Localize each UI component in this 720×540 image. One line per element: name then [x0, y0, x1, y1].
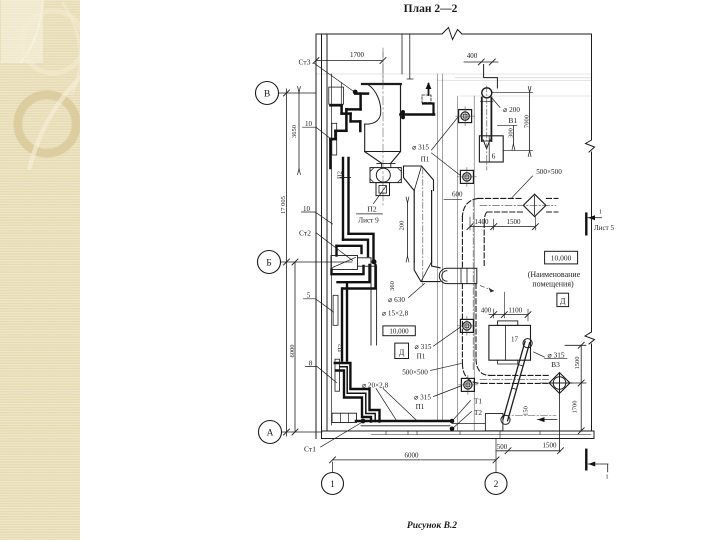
- svg-text:300: 300: [507, 128, 514, 138]
- svg-text:400: 400: [481, 307, 492, 315]
- left dim 6000 vertical: [294, 262, 296, 432]
- svg-text:10: 10: [303, 205, 311, 213]
- svg-text:Т1: Т1: [474, 398, 482, 406]
- svg-text:Лист 5: Лист 5: [594, 224, 614, 232]
- elbow top: [404, 166, 434, 191]
- svg-text:1700: 1700: [350, 51, 365, 59]
- svg-text:500×500: 500×500: [536, 168, 562, 176]
- sidebar background: [0, 0, 80, 540]
- svg-text:Д: Д: [560, 297, 566, 306]
- svg-text:400: 400: [467, 52, 478, 60]
- svg-text:3650: 3650: [291, 125, 298, 138]
- dashed duct upper horizontal: [462, 198, 558, 383]
- svg-text:1500: 1500: [543, 441, 558, 449]
- cyclone funnel: [365, 152, 400, 163]
- dim 200: [407, 203, 409, 256]
- room tag D: [557, 293, 569, 306]
- svg-text:500: 500: [497, 443, 508, 451]
- svg-text:500×500: 500×500: [402, 369, 428, 377]
- svg-text:1: 1: [330, 480, 335, 490]
- svg-text:1: 1: [605, 474, 608, 481]
- dim 1400 1500: [470, 226, 535, 228]
- svg-text:1500: 1500: [574, 357, 581, 370]
- leaders: [302, 64, 568, 448]
- svg-text:П2: П2: [367, 205, 376, 214]
- svg-text:П1: П1: [417, 353, 426, 361]
- svg-text:10,000: 10,000: [389, 328, 409, 336]
- box 6: [479, 136, 503, 162]
- svg-text:⌀ 315: ⌀ 315: [414, 394, 431, 402]
- diffuser symbols: [456, 107, 475, 126]
- V1 duct: [482, 88, 492, 98]
- left dim 3650: [298, 91, 300, 169]
- svg-text:600: 600: [452, 191, 463, 199]
- dim 150: [538, 419, 558, 421]
- svg-text:6000: 6000: [289, 345, 296, 358]
- dim 1700: [316, 60, 383, 62]
- svg-text:Д: Д: [399, 348, 405, 357]
- svg-text:П1: П1: [416, 403, 425, 411]
- riser pair P2: [343, 158, 349, 240]
- vertical duct 630: [414, 191, 431, 262]
- svg-text:Рисунок В.2: Рисунок В.2: [407, 521, 457, 531]
- dim 300: [512, 126, 514, 144]
- V1 stub: [484, 65, 498, 89]
- svg-text:⌀ 630: ⌀ 630: [388, 296, 405, 304]
- scan artifact lines: [316, 74, 592, 96]
- silencer: [439, 268, 477, 283]
- svg-text:Ст3: Ст3: [299, 58, 311, 67]
- bottom dim 6000: [333, 459, 497, 461]
- svg-text:6000: 6000: [405, 451, 420, 459]
- sidebar swoosh: [29, 62, 97, 170]
- dashdot arrow: [480, 286, 494, 292]
- svg-text:(Наименование: (Наименование: [528, 270, 581, 279]
- svg-text:П1: П1: [421, 156, 430, 164]
- svg-text:17 005: 17 005: [280, 196, 287, 214]
- svg-text:⌀ 15×2,8: ⌀ 15×2,8: [382, 310, 409, 318]
- svg-text:150: 150: [522, 406, 529, 416]
- level box 10,000: [545, 251, 578, 264]
- svg-text:1: 1: [599, 209, 602, 216]
- svg-text:План 2—2: План 2—2: [404, 3, 458, 15]
- duct zigzag bottom: [335, 363, 380, 422]
- svg-text:1100: 1100: [508, 307, 522, 315]
- duct centerlines: [473, 200, 556, 416]
- level box 10,000 (2): [383, 326, 415, 336]
- dim 600: [444, 198, 462, 200]
- axis circle 1: [322, 473, 344, 495]
- room tag D (2): [395, 343, 409, 358]
- stub risers above cyclone: [402, 34, 413, 79]
- diamond 500x500: [523, 194, 546, 216]
- left wall lines: [316, 34, 332, 439]
- svg-text:Лист 9: Лист 9: [358, 217, 379, 225]
- svg-text:10: 10: [305, 120, 313, 128]
- svg-text:10,000: 10,000: [551, 254, 572, 263]
- diagonal duct V3: [501, 339, 532, 425]
- svg-text:2: 2: [494, 480, 499, 490]
- svg-text:1700: 1700: [571, 401, 578, 414]
- section arrow mid right: [585, 214, 587, 235]
- thin pair to lower duct: [358, 258, 377, 345]
- dim 400 top: [464, 61, 498, 63]
- svg-text:7000: 7000: [524, 115, 531, 128]
- dim 1500 right: [580, 345, 582, 431]
- svg-text:В: В: [264, 89, 270, 99]
- cyclone body: [362, 83, 401, 85]
- svg-text:⌀ 315: ⌀ 315: [548, 352, 565, 360]
- svg-text:⌀ 315: ⌀ 315: [412, 144, 429, 152]
- svg-text:8: 8: [309, 360, 313, 368]
- svg-text:17: 17: [511, 336, 519, 344]
- bottom dim 500 1500: [496, 450, 561, 452]
- axis circle В: [256, 82, 279, 105]
- axis circle 2: [485, 473, 507, 495]
- svg-text:6: 6: [492, 152, 496, 161]
- sidebar faint circle: [22, 11, 84, 73]
- bottom wall: [322, 431, 594, 439]
- svg-text:Ст1: Ст1: [304, 445, 316, 454]
- axis circle Б: [258, 251, 281, 274]
- sidebar top card: [1, 0, 43, 63]
- elbow bottom: [414, 262, 440, 282]
- cyclone outlet fitting: [370, 168, 401, 183]
- connection box upper: [329, 87, 344, 104]
- diamond V3: [549, 373, 570, 394]
- svg-text:⌀ 315: ⌀ 315: [415, 343, 432, 351]
- svg-text:В3: В3: [551, 360, 560, 369]
- dim 400 1100: [489, 314, 528, 316]
- interior column lines: [438, 74, 475, 431]
- svg-text:П2: П2: [337, 344, 344, 352]
- svg-text:200: 200: [399, 221, 406, 231]
- duct zigzag middle: [332, 234, 376, 361]
- svg-text:1400: 1400: [475, 218, 490, 226]
- svg-text:Т2: Т2: [474, 409, 482, 417]
- svg-text:360: 360: [389, 281, 396, 291]
- svg-text:А: А: [267, 428, 274, 438]
- main collector duct: [356, 420, 452, 423]
- riser rect middle: [333, 295, 338, 325]
- axis lines: [279, 93, 497, 473]
- riser rect bottom: [335, 359, 340, 391]
- sidebar ring: [18, 95, 76, 153]
- unit box 17: [489, 325, 531, 360]
- svg-text:⌀ 200: ⌀ 200: [503, 106, 520, 114]
- damper box middle: [331, 256, 358, 270]
- dim 7000: [529, 92, 531, 150]
- axis circle А: [259, 421, 282, 444]
- duct zigzag upper (Ct3): [330, 94, 368, 168]
- svg-text:П2: П2: [337, 171, 344, 179]
- svg-text:Б: Б: [266, 258, 271, 268]
- top wall line with break: [316, 28, 592, 40]
- section arrow bottom right: [585, 450, 587, 470]
- svg-text:1500: 1500: [507, 218, 522, 226]
- svg-text:5: 5: [307, 292, 311, 300]
- riser rect upper: [332, 123, 337, 155]
- right wall with breaks: [585, 34, 595, 431]
- grille box: [332, 413, 357, 422]
- svg-text:помещения): помещения): [532, 280, 574, 289]
- svg-text:В1: В1: [508, 116, 517, 125]
- svg-text:⌀ 20×2,8: ⌀ 20×2,8: [362, 382, 389, 390]
- exhaust duct thick: [401, 113, 435, 116]
- left dim line 17005: [286, 89, 288, 436]
- svg-text:Ст2: Ст2: [299, 229, 311, 238]
